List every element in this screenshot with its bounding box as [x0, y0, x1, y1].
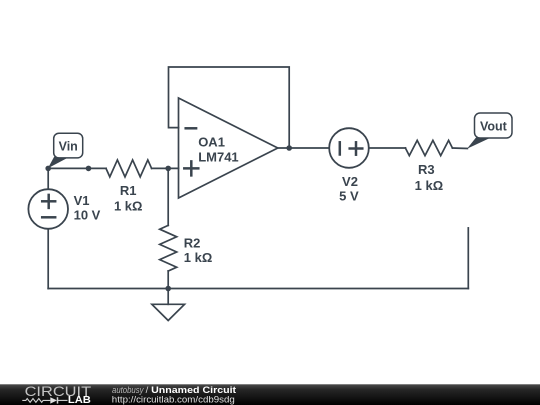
wire bottom ground rail	[48, 288, 468, 290]
svg-text:5 V: 5 V	[339, 189, 359, 204]
label R1 value	[114, 183, 143, 213]
label V1 value	[74, 193, 101, 223]
CircuitLab logo resistor-diode glyph	[22, 397, 67, 403]
svg-text:LM741: LM741	[198, 150, 238, 165]
svg-text:1 kΩ: 1 kΩ	[114, 198, 143, 213]
ground	[152, 289, 185, 321]
resistor R1	[106, 160, 152, 177]
voltage source V2	[329, 128, 369, 168]
flag Vin pointer	[48, 157, 68, 169]
svg-text:1 kΩ: 1 kΩ	[415, 178, 444, 193]
svg-text:10 V: 10 V	[74, 208, 101, 223]
wire input row from Vin node to R1	[48, 167, 106, 169]
svg-text:V2: V2	[342, 174, 358, 189]
wire V2 to R3	[369, 147, 406, 149]
flag Vin box	[54, 133, 83, 158]
svg-text:R1: R1	[120, 183, 137, 198]
wire feedback loop	[169, 67, 290, 148]
node Vin junction dot	[45, 166, 51, 172]
wire V1 bottom lead	[47, 229, 49, 289]
wire R3 to Vout node	[452, 147, 467, 150]
svg-text:R2: R2	[184, 235, 201, 250]
svg-text:Vin: Vin	[59, 139, 78, 153]
node op-amp output junction dot	[286, 145, 292, 151]
resistor R2	[160, 225, 177, 271]
svg-text:R3: R3	[418, 162, 435, 177]
wire V1 top lead	[47, 168, 49, 189]
svg-text:V1: V1	[74, 193, 90, 208]
resistor R3	[405, 140, 452, 155]
flag Vout box	[475, 113, 513, 138]
label op-amp OA1 LM741	[198, 134, 238, 164]
node ground rail junction dot	[165, 286, 171, 292]
wire op-amp output to V2	[278, 147, 329, 149]
node wire joint dot	[86, 166, 92, 172]
wire from + node down to R2	[167, 168, 169, 225]
svg-text:1 kΩ: 1 kΩ	[184, 250, 213, 265]
svg-text:LAB: LAB	[68, 395, 91, 405]
footer bar	[0, 384, 540, 405]
op-amp inverting input marker	[186, 127, 196, 130]
svg-text:Vout: Vout	[480, 119, 508, 133]
op-amp U1 triangle	[179, 98, 278, 198]
wire right stub up from rail	[467, 228, 469, 289]
wire R1 to op-amp + input	[152, 167, 179, 169]
op-amp non-inverting input marker	[184, 161, 198, 175]
svg-text:http://circuitlab.com/cdb9sdg: http://circuitlab.com/cdb9sdg	[112, 394, 235, 405]
wire R2 bottom to rail	[167, 271, 169, 289]
label V2 value	[339, 174, 359, 204]
label R2 value	[184, 235, 213, 265]
label R3 value	[415, 162, 444, 193]
svg-text:OA1: OA1	[198, 134, 225, 149]
flag Vout pointer	[467, 138, 491, 149]
node op-amp + input junction dot	[165, 166, 171, 172]
voltage source V1	[28, 189, 68, 229]
footer circuit title line	[112, 385, 237, 396]
